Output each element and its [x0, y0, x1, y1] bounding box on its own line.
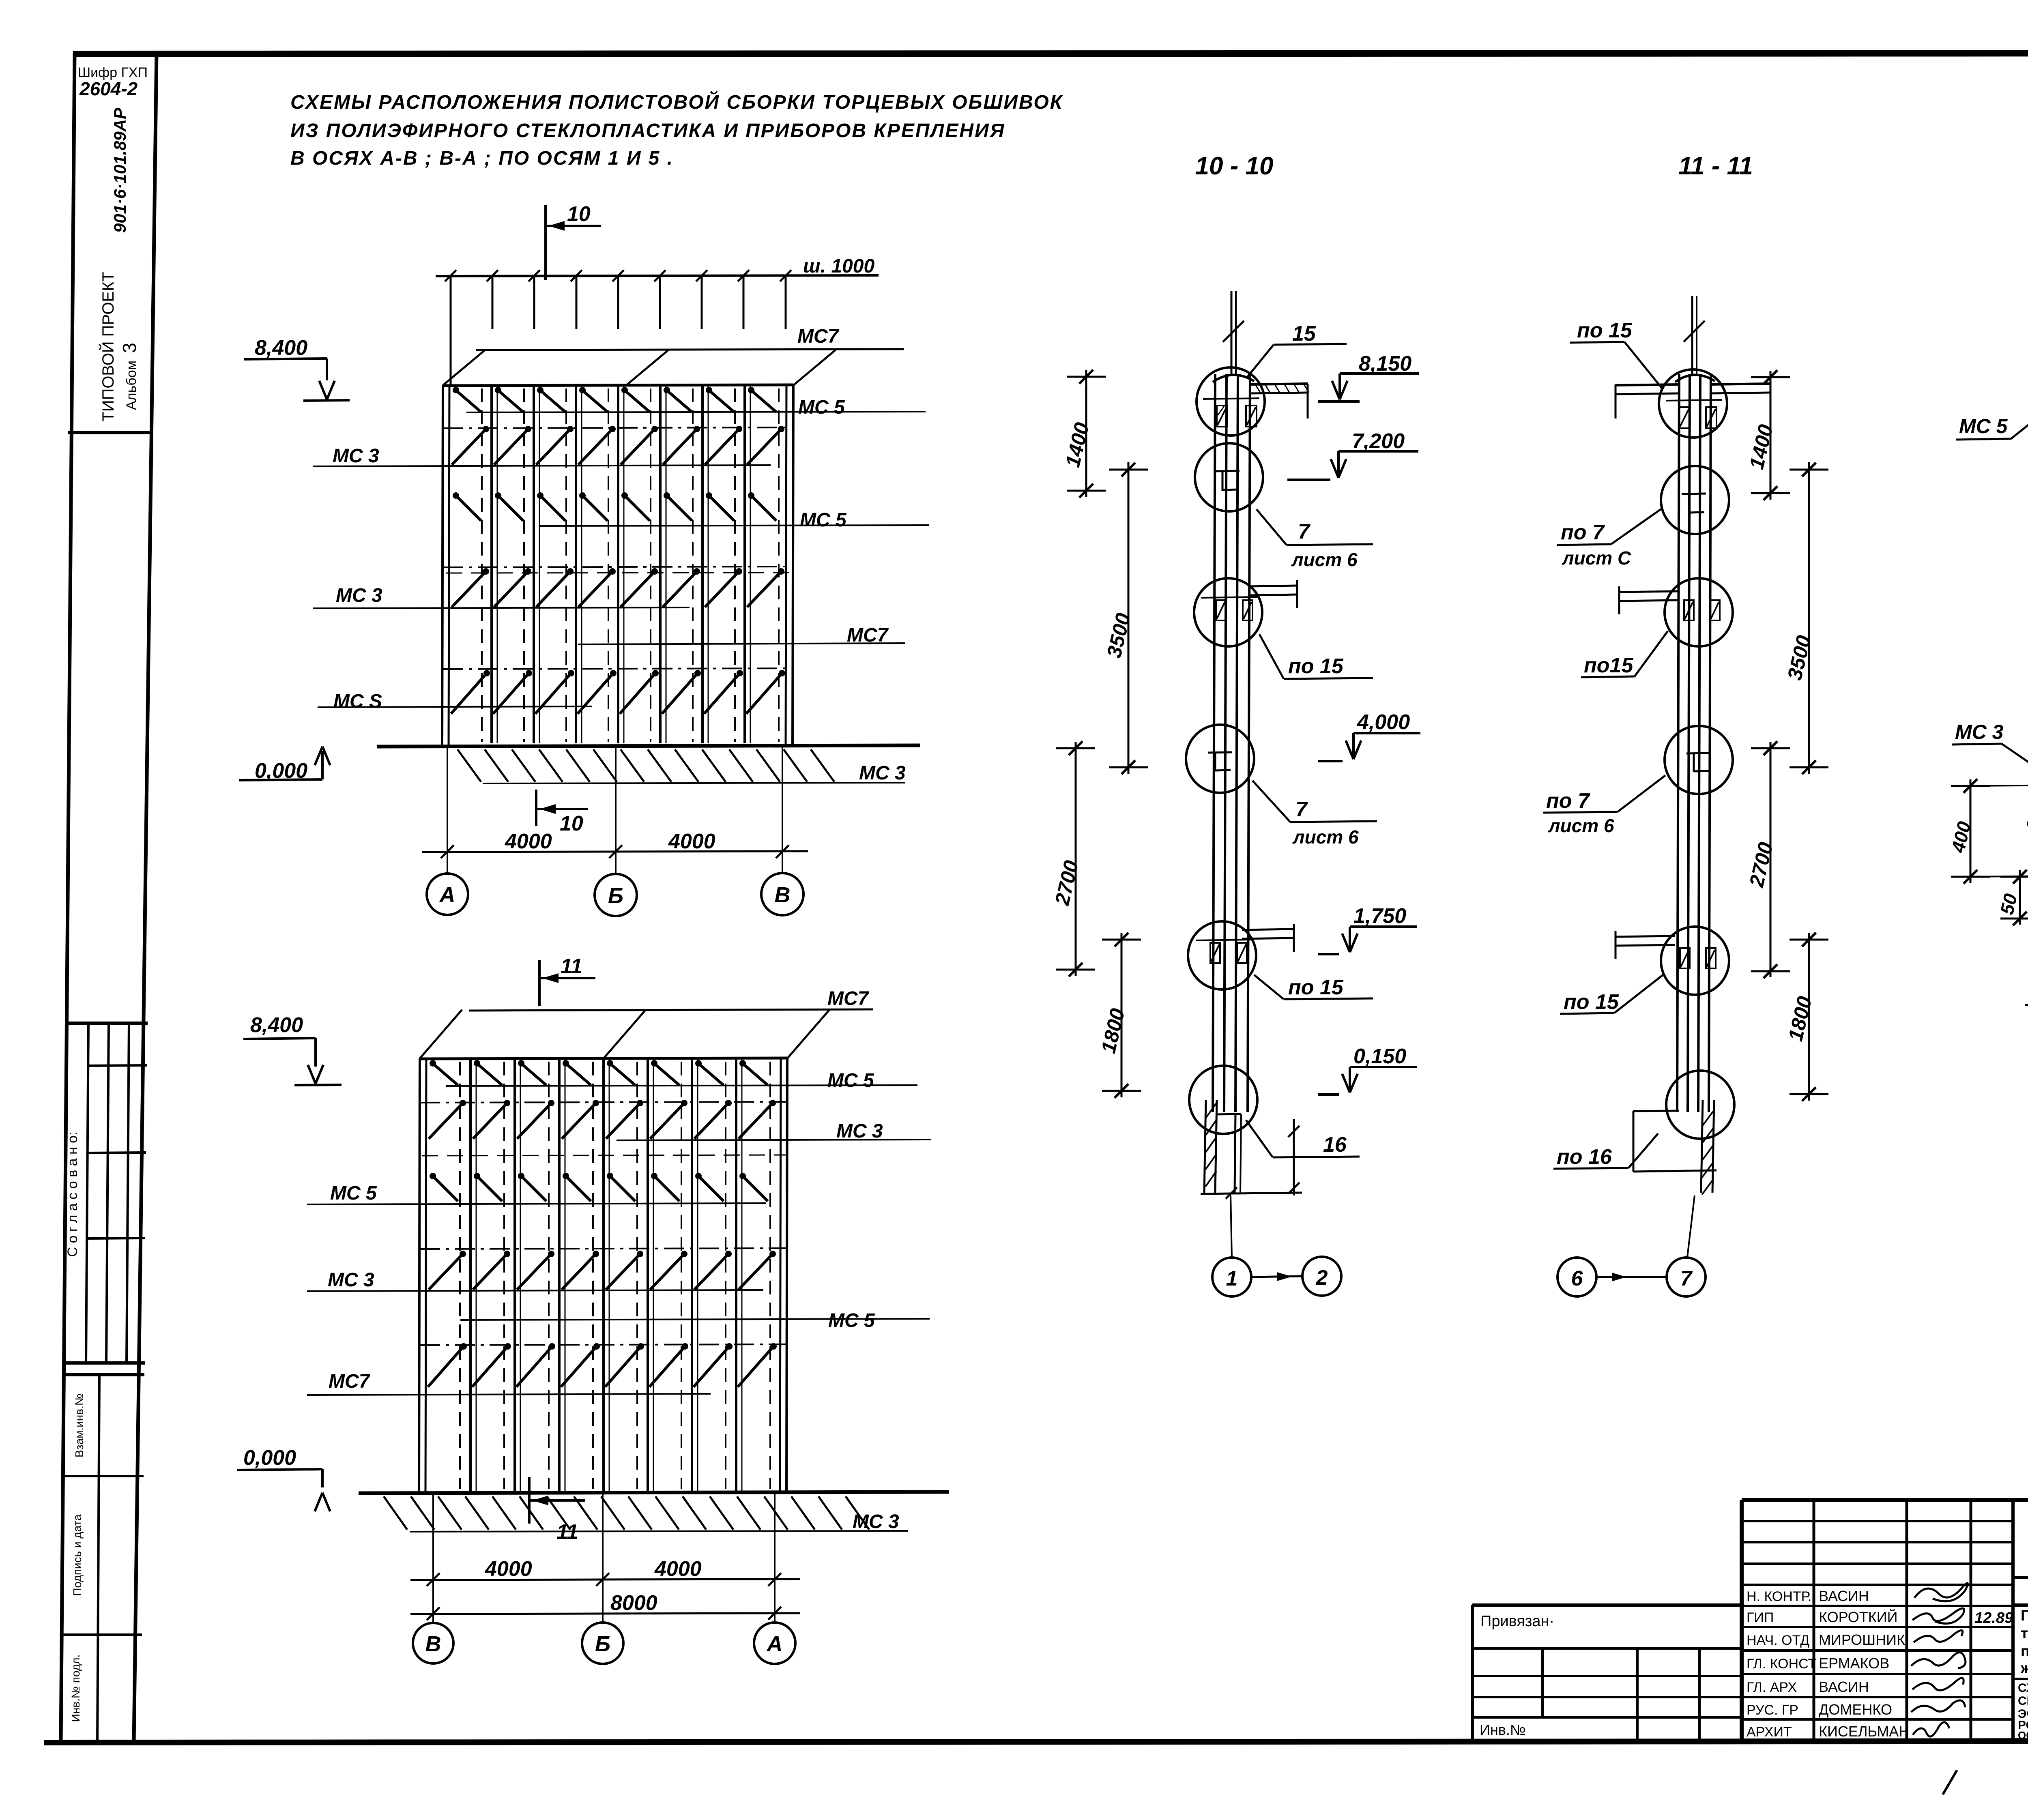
elev2 row1 hooks — [430, 1060, 436, 1067]
foundation hatch strip — [458, 749, 481, 782]
svg-text:СХЕМЫ РАСПОЛОЖЕНИЯ ПОЛИСТОВО: СХЕМЫ РАСПОЛОЖЕНИЯ ПОЛИСТОВОЙ СБОРКИ ТОР… — [290, 91, 1063, 113]
elevation V-A: MC7 top line — [469, 1009, 873, 1011]
axis lines elevation 1 — [447, 747, 448, 873]
11-11 roof slab right — [1711, 384, 1770, 384]
svg-text:МИРОШНИК: МИРОШНИК — [1819, 1631, 1905, 1648]
svg-text:8000: 8000 — [610, 1591, 657, 1615]
title block outer top — [1742, 1498, 2028, 1502]
svg-text:по 15: по 15 — [1288, 655, 1344, 678]
MC5 leader line — [466, 412, 926, 412]
svg-text:Б: Б — [595, 1632, 610, 1656]
title block bottom — [1742, 1740, 2028, 1741]
svg-text:11: 11 — [561, 955, 582, 978]
svg-text:площадью 64 м² с каркасом и: площадью 64 м² с каркасом из — [2021, 1643, 2028, 1659]
connector line 1-2 — [1252, 1276, 1302, 1277]
svg-text:торами 2ВГ50 пленочная с секци: торами 2ВГ50 пленочная с секциями — [2021, 1625, 2028, 1642]
11-11 dim chain 1800 — [1808, 933, 1810, 1101]
C3 bracket lines — [1248, 586, 1297, 586]
svg-text:ГИП: ГИП — [1747, 1610, 1774, 1625]
11-11 roof slab left — [1616, 384, 1679, 385]
D5 bracket left — [1616, 936, 1675, 937]
elevation A-V: spacing strip sh.1000 — [436, 275, 879, 276]
11-11 top mast — [1691, 296, 1693, 374]
svg-text:А: А — [766, 1632, 783, 1656]
svg-text:ИЗ ПОЛИЭФИРНОГО СТЕКЛОПЛАСТИ: ИЗ ПОЛИЭФИРНОГО СТЕКЛОПЛАСТИКА И ПРИБОРО… — [290, 120, 1005, 142]
MC5 leader left elev2 — [307, 1203, 766, 1204]
svg-text:6: 6 — [1571, 1267, 1583, 1290]
svg-text:4,000: 4,000 — [1357, 710, 1410, 734]
svg-text:А: А — [439, 883, 455, 907]
svg-text:7: 7 — [1298, 520, 1310, 543]
svg-text:В: В — [775, 883, 791, 907]
svg-text:по 15: по 15 — [1288, 976, 1344, 999]
svg-text:Инв.№: Инв.№ — [1480, 1721, 1526, 1738]
elevation A-V panel left edge — [442, 385, 443, 745]
svg-text:ВАСИН: ВАСИН — [1819, 1678, 1869, 1695]
10-10 axis to circle 1 — [1231, 1195, 1232, 1257]
10-10 dim chain 3500 — [1128, 462, 1130, 774]
svg-text:МС 3: МС 3 — [859, 762, 906, 784]
svg-text:3: 3 — [119, 343, 140, 353]
elev2 row2 hooks — [429, 1103, 463, 1139]
signature table columns — [1813, 1500, 1815, 1741]
C5 hatched pads — [1210, 943, 1220, 963]
doc number cell bottom — [2013, 1576, 2028, 1579]
svg-text:лист С: лист С — [1562, 547, 1631, 569]
privyazan box — [1472, 1603, 1742, 1607]
10-10 dim chain 1400 — [1085, 370, 1087, 497]
dash-dot joint 3 — [443, 668, 793, 669]
MC5-3 leader — [318, 706, 592, 707]
row 3 hooks MC5-2 — [453, 492, 459, 499]
dash-dot joint2 elev2 — [420, 1248, 787, 1249]
elevation A-V panel right edge — [786, 385, 786, 745]
svg-text:АРХИТ: АРХИТ — [1747, 1724, 1792, 1740]
section 11-11 wall lines — [1677, 374, 1679, 1112]
detail circle D1 — [1659, 369, 1727, 438]
sidebar top box bottom line — [68, 431, 150, 434]
horizontal dash-dot joint — [443, 427, 793, 428]
soglasovano table — [66, 1022, 148, 1025]
svg-text:Подпись и дата: Подпись и дата — [71, 1514, 84, 1596]
svg-text:МС 3: МС 3 — [336, 585, 382, 606]
section 10-10 wall lines — [1213, 374, 1215, 1112]
svg-text:0,000: 0,000 — [243, 1446, 296, 1470]
svg-text:8,400: 8,400 — [255, 336, 307, 360]
sidebar outer left line — [61, 53, 75, 1743]
MC7 sheet diagonals — [443, 350, 485, 385]
elev2 row3 hooks — [430, 1173, 436, 1179]
svg-text:МС 3: МС 3 — [853, 1511, 899, 1532]
svg-text:железобетонных элементов: железобетонных элементов — [2020, 1660, 2028, 1676]
elevation A-V: MC7 top sheet line — [476, 349, 904, 350]
detail circle D2 — [1661, 466, 1729, 534]
11-11 axis to circle 7 — [1687, 1195, 1695, 1257]
detail circle C6 — [1189, 1066, 1257, 1134]
svg-text:ДОМЕНКО: ДОМЕНКО — [1819, 1701, 1892, 1718]
elevation A-V panel top edge — [443, 385, 793, 386]
svg-text:МС7: МС7 — [329, 1371, 371, 1392]
svg-text:0,150: 0,150 — [1353, 1045, 1406, 1068]
dash-dot joint3 elev2 — [420, 1344, 787, 1345]
10-10 base dim verticals — [1293, 1119, 1295, 1195]
svg-text:КОРОТКИЙ: КОРОТКИЙ — [1819, 1608, 1898, 1625]
D5 pads — [1680, 948, 1690, 968]
svg-text:МС 5: МС 5 — [1959, 415, 2008, 438]
svg-text:1,750: 1,750 — [1353, 904, 1406, 928]
svg-text:по15: по15 — [1584, 654, 1633, 677]
svg-text:МС 3: МС 3 — [1955, 721, 2004, 743]
svg-text:ш. 1000: ш. 1000 — [803, 255, 874, 277]
11-11 dim chain 3500 — [1808, 462, 1810, 774]
svg-text:10 - 10: 10 - 10 — [1195, 152, 1273, 180]
MC7 leader left elev2 — [307, 1394, 711, 1395]
title block left edge — [1740, 1500, 1744, 1741]
elev2 row4 hooks — [429, 1254, 463, 1290]
ground line elev2 — [359, 1492, 949, 1493]
signatures squiggles — [1914, 1583, 1968, 1601]
D2 clamp — [1682, 494, 1706, 494]
svg-text:10: 10 — [560, 812, 583, 835]
elev2 row5 hooks — [428, 1346, 464, 1387]
detail circle C5 — [1188, 921, 1256, 989]
detail 16 bottom dims 120 250 — [2025, 1003, 2028, 1005]
svg-text:В ОСЯХ А-В ; В-А ; ПО ОСЯ: В ОСЯХ А-В ; В-А ; ПО ОСЯМ 1 И 5 . — [290, 148, 674, 169]
svg-text:Инв.№ подл.: Инв.№ подл. — [69, 1655, 82, 1722]
svg-text:МС 5: МС 5 — [798, 397, 845, 418]
svg-text:МС 5: МС 5 — [828, 1310, 875, 1331]
10-10 base right lines — [1235, 1114, 1235, 1193]
D3 bracket left — [1619, 591, 1679, 592]
axis circle A2 — [754, 1623, 795, 1664]
svg-text:МС7: МС7 — [797, 326, 840, 347]
D4 clamp — [1686, 753, 1711, 753]
axis circle B2 — [582, 1623, 623, 1664]
11-11 foundation box — [1633, 1111, 1635, 1172]
row 5 hooks bottom — [451, 673, 487, 714]
detail circle C1 — [1197, 367, 1265, 436]
dim line 4000 4000 elev2 — [410, 1579, 800, 1580]
axis circle 6 — [1558, 1258, 1596, 1296]
svg-text:по 7: по 7 — [1546, 789, 1590, 813]
elevation A-V panel dashed joint lines — [481, 388, 483, 742]
svg-text:Альбом: Альбом — [124, 361, 139, 410]
frame bottom border — [44, 1741, 2028, 1743]
10-10 base hatched strip — [1204, 1100, 1206, 1193]
detail circle D5 — [1661, 927, 1729, 995]
panel left edge elev2 — [419, 1058, 420, 1492]
axis circle V — [761, 873, 803, 915]
svg-text:НАЧ. ОТД: НАЧ. ОТД — [1747, 1633, 1809, 1648]
elevation A-V: section mark 10 top — [544, 205, 547, 280]
signature table rows — [1742, 1520, 2013, 1522]
10-10 roof slab lines — [1251, 384, 1308, 384]
svg-text:1: 1 — [1226, 1267, 1238, 1290]
frame top border — [73, 53, 2028, 54]
C3 hatched pads — [1216, 600, 1226, 620]
svg-text:901·6·101.89АР: 901·6·101.89АР — [110, 107, 129, 233]
svg-text:Н. КОНТР.: Н. КОНТР. — [1747, 1589, 1811, 1604]
sidebar bottom stamp table — [62, 1373, 144, 1376]
svg-text:7,200: 7,200 — [1352, 429, 1405, 453]
svg-text:Привязан·: Привязан· — [1480, 1613, 1554, 1630]
svg-text:МС S: МС S — [333, 691, 382, 712]
MC7 sheet diagonals elev2 — [420, 1010, 462, 1058]
panel joints elev2 — [469, 1058, 472, 1491]
MC5 leader right elev2 — [446, 1085, 917, 1086]
MC5-2 leader line — [539, 525, 929, 526]
detail circle C2 — [1195, 443, 1263, 511]
svg-text:4000: 4000 — [654, 1557, 702, 1581]
row 4 hooks MC3-2 — [452, 571, 486, 607]
elevation V-A panel top edge — [420, 1058, 787, 1059]
axis circle A — [427, 874, 468, 915]
svg-text:МС7: МС7 — [827, 988, 870, 1009]
elevation A-V panel joints — [490, 385, 493, 743]
section 10-10 top mast — [1231, 291, 1233, 374]
detail circle D6 — [1666, 1071, 1734, 1139]
detail circle D3 — [1665, 578, 1733, 646]
C2 clamp mark — [1215, 471, 1240, 471]
axis circle B — [595, 874, 637, 916]
D1 inner pads — [1679, 407, 1690, 428]
section mark 11 bottom — [528, 1477, 531, 1524]
svg-text:7: 7 — [1680, 1267, 1693, 1290]
C1 inner hatched pads — [1217, 406, 1227, 427]
svg-text:МС 3: МС 3 — [836, 1120, 883, 1142]
svg-text:лист 6: лист 6 — [1292, 826, 1359, 848]
axis circle V2 — [413, 1623, 453, 1663]
axis circle 1 — [1212, 1258, 1251, 1296]
svg-text:КИСЕЛЬМАН: КИСЕЛЬМАН — [1819, 1723, 1909, 1740]
svg-text:ВАСИН: ВАСИН — [1819, 1588, 1869, 1604]
svg-text:12.89: 12.89 — [1974, 1610, 2013, 1627]
svg-text:Взам.инв.№: Взам.инв.№ — [73, 1393, 86, 1457]
small tick under signatures — [1943, 1770, 1957, 1794]
svg-text:лист 6: лист 6 — [1548, 815, 1614, 836]
foundation hatch elev2 — [384, 1496, 407, 1530]
elev2 mid dashed — [422, 1155, 787, 1156]
dash-dot joint 2 — [443, 567, 793, 567]
svg-text:по 16: по 16 — [1557, 1145, 1612, 1169]
svg-text:11 - 11: 11 - 11 — [1678, 152, 1753, 180]
10-10 top cap — [1213, 375, 1254, 382]
dim line 8000 elev2 — [410, 1613, 800, 1614]
MC3 leader left elev2 — [307, 1290, 763, 1291]
11-11 top cap — [1675, 375, 1715, 382]
svg-text:8,150: 8,150 — [1359, 352, 1411, 376]
svg-text:Б: Б — [608, 884, 623, 908]
C5 bracket lines — [1242, 929, 1294, 930]
10-10 dim chain 1800 — [1121, 933, 1123, 1097]
ground line 0.000 elevation 1 — [377, 745, 920, 747]
detail circle C4 — [1186, 725, 1254, 793]
svg-text:7: 7 — [1295, 798, 1308, 821]
axis circle 2 — [1302, 1257, 1341, 1296]
svg-text:СБОРКИ ТОРЦЕВЫХ ОБШИВОК ИЗ ПОЛ: СБОРКИ ТОРЦЕВЫХ ОБШИВОК ИЗ ПОЛИ- — [2018, 1694, 2028, 1708]
svg-text:по 15: по 15 — [1577, 319, 1633, 342]
connector line 6-7 — [1597, 1276, 1666, 1278]
svg-text:15: 15 — [1292, 322, 1316, 346]
title block right big cell divider — [2011, 1500, 2015, 1741]
C4 clamp mark — [1208, 752, 1232, 753]
svg-text:8,400: 8,400 — [250, 1013, 303, 1037]
annotation area top — [2013, 1603, 2028, 1607]
detail circle C3 — [1194, 578, 1262, 646]
svg-text:РУС. ГР: РУС. ГР — [1747, 1702, 1798, 1718]
svg-text:В: В — [425, 1632, 441, 1656]
D3 pads — [1684, 600, 1694, 620]
svg-text:4000: 4000 — [668, 830, 715, 853]
detail 16 dim 50 — [2019, 870, 2021, 925]
sidebar inner right line — [134, 53, 157, 1743]
dimension line 4000+4000 — [422, 851, 808, 852]
svg-text:2604-2: 2604-2 — [79, 78, 138, 99]
MC3 leader right elev2 — [617, 1140, 931, 1140]
section mark 10 bottom — [535, 790, 537, 826]
row 1 hooks MC5 — [453, 387, 459, 393]
axis circle 7 — [1667, 1258, 1706, 1296]
10-10 roof hatch ticks — [1255, 384, 1260, 393]
project name divider — [2013, 1678, 2028, 1680]
11-11 dim chain 1400 — [1770, 371, 1772, 500]
svg-text:11: 11 — [556, 1520, 578, 1544]
svg-text:МС 3: МС 3 — [328, 1269, 374, 1291]
svg-text:ЕРМАКОВ: ЕРМАКОВ — [1819, 1655, 1889, 1672]
detail circle D4 — [1665, 726, 1733, 794]
svg-text:4000: 4000 — [485, 1557, 532, 1581]
svg-text:ТИПОВОЙ ПРОЕКТ: ТИПОВОЙ ПРОЕКТ — [99, 272, 117, 421]
elevation V-A: section mark 11 top — [538, 960, 541, 1006]
MC3 leader line left — [313, 465, 771, 466]
11-11 dim chain 2700 — [1770, 742, 1772, 977]
svg-text:10: 10 — [567, 202, 591, 226]
axis lines elev2 — [432, 1493, 434, 1622]
svg-text:ГЛ. КОНСТ: ГЛ. КОНСТ — [1747, 1656, 1816, 1672]
row 2 hooks MC3 — [452, 429, 486, 465]
svg-text:МС 5: МС 5 — [827, 1070, 874, 1091]
svg-text:СХЕМА РАСПОЛОЖЕНИЯ ПОЛИСТОВОЙ: СХЕМА РАСПОЛОЖЕНИЯ ПОЛИСТОВОЙ — [2018, 1681, 2028, 1695]
MC5-2 leader right elev2 — [460, 1319, 930, 1320]
panel right edge elev2 — [780, 1058, 781, 1492]
svg-text:МС 5: МС 5 — [800, 509, 847, 531]
dash-dot joint elev2 — [420, 1102, 787, 1103]
svg-text:16: 16 — [1323, 1133, 1347, 1157]
detail 16 dim 400 — [1970, 779, 1972, 883]
svg-text:Градирня двухсекционная с вент: Градирня двухсекционная с вентиля- — [2021, 1607, 2028, 1624]
svg-text:МС 3: МС 3 — [333, 445, 379, 467]
svg-text:по 7: по 7 — [1561, 521, 1605, 544]
svg-text:2: 2 — [1316, 1266, 1328, 1290]
svg-text:лист 6: лист 6 — [1291, 549, 1358, 570]
MC7-2 leader — [578, 643, 905, 644]
hatch bottom line / MC3 leader — [483, 783, 905, 783]
dashed joints elev2 — [459, 1062, 461, 1489]
10-10 dim chain 2700 — [1075, 742, 1077, 976]
svg-text:4000: 4000 — [505, 830, 552, 853]
svg-text:МС 5: МС 5 — [330, 1183, 377, 1204]
svg-text:по 15: по 15 — [1564, 990, 1619, 1014]
svg-text:С о г л а с о в а н о:: С о г л а с о в а н о: — [65, 1131, 80, 1257]
svg-text:ГЛ. АРХ: ГЛ. АРХ — [1747, 1680, 1797, 1695]
